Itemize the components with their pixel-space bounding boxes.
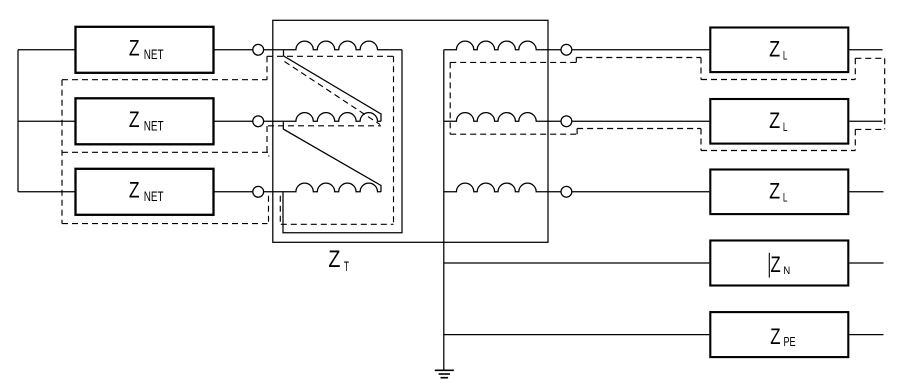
loop dashed along primary row1 xyxy=(267,55,394,57)
svg-text:L: L xyxy=(783,49,788,62)
wire secondary L2 to Z_L2 xyxy=(572,120,709,122)
impedance box Z_NET2 xyxy=(76,98,214,144)
secondary loop dashed return under S2 xyxy=(450,133,577,135)
impedance box Z_L1 xyxy=(710,28,848,73)
delta link wire: L3 node to P1 winding end (bottom U path) xyxy=(283,50,402,233)
impedance box Z_N xyxy=(710,241,848,286)
loop dashed bottom inside transformer xyxy=(281,223,394,225)
terminal circle secondary L3 xyxy=(561,186,572,197)
transformer enclosure box Z_T xyxy=(273,20,548,242)
svg-text:NET: NET xyxy=(144,119,164,134)
secondary loop dashed under Z_L2 xyxy=(701,150,855,152)
text cursor artifact before Z_N xyxy=(768,253,770,278)
delta link wire: L1 node to P2 winding end (diagonal) xyxy=(284,50,382,122)
primary winding coil P2 xyxy=(264,113,381,122)
svg-text:NET: NET xyxy=(144,189,164,204)
secondary loop dashed to load end row1 xyxy=(855,57,884,59)
wire Z_N to load end xyxy=(849,262,883,264)
wire secondary L1 to Z_L1 xyxy=(572,49,709,51)
svg-text:Z: Z xyxy=(770,324,780,349)
secondary loop dashed along row1 to Z_L1 xyxy=(576,57,701,59)
loop1 dashed riser at transformer entry xyxy=(266,56,268,79)
svg-text:Z: Z xyxy=(771,252,781,277)
node left bus xyxy=(17,50,19,192)
impedance box Z_L3 xyxy=(710,170,848,215)
secondary winding coil S2 xyxy=(444,113,561,122)
svg-text:Z: Z xyxy=(129,36,140,61)
impedance box Z_PE xyxy=(710,312,848,357)
ground symbol (earth) xyxy=(435,370,454,377)
secondary loop dashed load-end edge xyxy=(884,58,886,129)
loop1 dashed return riser xyxy=(266,126,268,152)
terminal circle L2 xyxy=(253,116,264,127)
wire L2 source to Z_NET2 xyxy=(18,120,75,122)
secondary loop dashed drop before Z_L1 xyxy=(700,58,702,80)
wire Z_L2 to load end xyxy=(849,120,882,122)
loop dashed riser inside transformer at row3 xyxy=(279,196,281,224)
svg-text:L: L xyxy=(783,121,788,134)
wire L3 source to Z_NET3 xyxy=(18,191,75,193)
secondary loop dashed top edge under S1 xyxy=(450,61,576,63)
wire Z_L3 to load end xyxy=(849,191,883,193)
secondary loop dashed back from load end row2 xyxy=(855,128,884,130)
secondary loop dashed along row2 xyxy=(577,128,701,130)
secondary loop dashed under Z_L1 xyxy=(701,79,855,81)
terminal circle L1 xyxy=(253,44,264,55)
svg-text:Z: Z xyxy=(769,108,780,133)
secondary loop dashed drop after Z_L2 xyxy=(854,129,856,150)
terminal circle secondary L1 xyxy=(561,44,572,55)
wire Z_NET3 to terminal L3 xyxy=(215,191,253,193)
loop2 dashed riser at row3 xyxy=(268,196,270,224)
svg-text:T: T xyxy=(344,259,349,275)
loop2 dashed bottom edge xyxy=(62,223,267,225)
secondary neutral star-point bus and earth conductor xyxy=(443,50,445,371)
secondary loop dashed left edge at star point xyxy=(449,62,451,134)
secondary loop dashed step down xyxy=(576,129,578,135)
primary winding coil P1 (wire from terminal L1, arches, to delta corner) xyxy=(264,41,402,50)
loop dashed right edge inside transformer xyxy=(393,56,395,224)
impedance box Z_NET1 xyxy=(76,27,214,73)
svg-text:Z: Z xyxy=(769,36,780,61)
loop1/loop2 dashed shared middle edge xyxy=(62,152,269,156)
wire neutral N to Z_N xyxy=(444,262,710,264)
wire L1 source to Z_NET1 xyxy=(18,49,75,51)
loop dashed return under primary winding 2 xyxy=(268,125,381,127)
wire secondary L3 to Z_L3 xyxy=(572,191,709,193)
svg-text:NET: NET xyxy=(144,47,164,62)
impedance box Z_L2 xyxy=(710,99,848,144)
svg-text:Z: Z xyxy=(129,107,140,132)
secondary loop dashed step up xyxy=(575,58,577,63)
wire Z_NET2 to terminal L2 xyxy=(215,120,253,122)
terminal circle L3 xyxy=(253,186,264,197)
delta link wire: L2 node to P3 winding end (diagonal) xyxy=(283,121,381,192)
svg-text:Z: Z xyxy=(129,178,140,203)
impedance box Z_NET3 xyxy=(76,169,214,215)
secondary loop dashed rise after Z_L1 xyxy=(854,58,856,79)
secondary loop dashed rise before Z_L2 xyxy=(700,129,702,151)
loop1 dashed: left edge around Z_NET2/Z_NET3 xyxy=(61,80,63,224)
terminal circle secondary L2 xyxy=(561,116,572,127)
svg-text:Z: Z xyxy=(769,178,780,203)
loop dashed diagonal along delta link xyxy=(285,62,381,125)
secondary winding coil S1 (wire from star bus, arches, to terminal) xyxy=(444,41,561,50)
wire Z_L1 to load end xyxy=(849,49,882,51)
wire PE to Z_PE xyxy=(444,334,710,336)
primary winding coil P3 xyxy=(264,183,381,192)
svg-text:N: N xyxy=(783,265,790,277)
secondary winding coil S3 xyxy=(444,183,561,192)
svg-text:L: L xyxy=(783,191,788,204)
wire Z_NET1 to terminal L1 xyxy=(215,49,253,51)
svg-text:Z: Z xyxy=(328,246,340,273)
wire Z_PE to load end xyxy=(849,334,883,336)
loop1 dashed top edge xyxy=(62,79,267,81)
svg-text:PE: PE xyxy=(784,335,796,349)
